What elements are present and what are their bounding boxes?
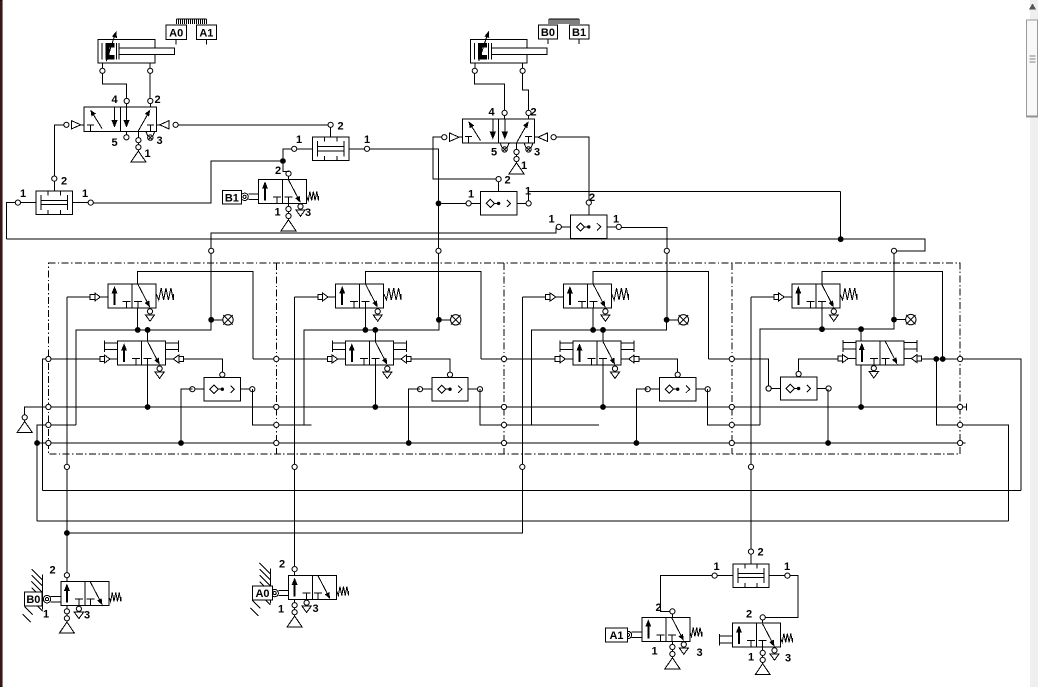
module 3 pilot line in segment [507,358,556,360]
valve A1 roller [624,631,642,638]
cylinder B (double-acting) [470,31,547,73]
module 1 memory valve port1 to bus1 [147,365,149,407]
module 2 junction shuttle bus3 [406,440,412,446]
module 2 shuttle left to bus3 [409,389,420,443]
module 1 memory valve (3/2 double pilot) [118,341,166,365]
border crossing circle b1 x504 [501,404,506,409]
module 2 bus3 segment [279,442,501,444]
module 2 bus1 segment [279,406,501,408]
module 1 junction feed/pilot-valve port1 [135,327,141,333]
wire OR2 out to V2 right pilot [556,137,588,200]
module 1 shuttle left to bus3 [181,389,192,443]
wire S2 node to OR1 left port [441,202,466,204]
module 1 pilot-out to B0 [66,454,68,530]
module 4 junction feed/memory-valve port2 [858,326,864,332]
module 4 pilot valve spring [840,288,857,300]
wire AND1 right port to B1 node [93,161,280,203]
junction bus3 into bus2 wrap [34,440,40,446]
wall B0 [23,569,43,622]
link circle module4 pilot [748,464,753,469]
valve B1 port 2 [286,171,291,176]
module 4 pilot line in segment [735,359,769,386]
signal line y521 [37,520,1008,522]
module 3 bus2 left segment [507,424,599,426]
svg-text:1: 1 [275,207,281,219]
module 4 pilot valve pilot wire [751,296,774,298]
svg-text:B0: B0 [541,27,555,39]
module 4 pilot valve (3/2 pilot+spring) [792,284,840,308]
module 2 pilot line out segment [481,358,501,360]
module 3 pilot valve left pilot [546,293,564,301]
module 1 bus2 left segment [51,424,76,426]
label A0 [166,25,186,44]
svg-text:A0: A0 [169,27,183,39]
border crossing circle b3 x960 [958,440,963,445]
valve V3 port 3 exhaust [770,648,779,660]
svg-text:B1: B1 [572,27,586,39]
valve B1 (3/2 roller limit switch) [259,179,307,203]
valve V3 port 1 air source [755,647,770,675]
module 2 indicator lamp [436,315,461,325]
svg-text:5: 5 [112,137,118,149]
valve A0 spring [337,587,349,596]
valve V1 port 1 air source [131,131,146,162]
module 1 memory right pilot to shuttle top [183,359,222,372]
module 1 junction feed/memory-valve port2 [145,327,151,333]
svg-text:1: 1 [549,214,555,226]
module 3 pilot line out segment [709,358,729,360]
wire AND2 out to V1 right pilot [178,124,327,126]
valve B0 (3/2 roller limit switch, actuated) [61,582,109,606]
valve V2 right pilot 12 [535,133,557,141]
module 2 memory valve right pilot [393,355,411,363]
module 1 pilot valve out2 wire [138,272,253,359]
wire S1 line to OR2 left [211,227,556,319]
module 4 pilot valve port 3 exhaust [829,309,838,321]
module 3 shuttle valve [645,372,710,401]
svg-text:3: 3 [305,207,311,219]
module 1 pilot valve spring [156,288,173,300]
valve V2 port 5 silencer [500,143,509,152]
label A1 [196,25,216,44]
module 2 pilot-out to A0 [294,454,296,566]
module 4 pilot-out to AND3 [750,454,752,549]
valve A0 port 1 air source [287,600,302,628]
bus1 right end stub [963,406,967,408]
shuttle valve OR1 [466,177,531,216]
wire V1 left pilot to AND1 out [54,125,63,177]
valve B1 port 3 exhaust [296,204,305,216]
valve V2 port 1 air source [509,143,524,174]
module 4 memory right pilot to border [922,358,958,360]
svg-text:2: 2 [746,609,752,621]
valve V2 port 2 [526,110,531,115]
module 2 shuttle right to bus2 [480,389,501,425]
module 3 pilot valve (3/2 pilot+spring) [563,284,611,308]
module 3 junction feed/pilot-valve port1 [590,327,596,333]
module 3 pilot valve out2 wire [593,272,708,359]
module 4 memory valve port 3 exhaust [869,366,878,378]
scrollbar track [1030,0,1038,687]
svg-text:A1: A1 [609,630,623,642]
link circle S1 feed [209,248,214,253]
distance ruler A [177,19,207,24]
module 1 pilot line out segment [253,358,273,360]
valve V1 left pilot 14 [64,121,84,129]
valve A0 port 2 [292,567,297,572]
scrollbar up arrow [1029,4,1036,10]
wire S4 feed into module 4 [893,254,895,320]
module 2 junction feed/pilot-valve port1 [363,327,369,333]
module 4 memory valve (3/2 double pilot, mirrored) [856,341,904,365]
svg-text:1: 1 [714,561,720,573]
border crossing circle pilot x960 [958,356,963,361]
module 1 feed line [76,322,211,425]
module 2 feed line [304,322,439,425]
module 4 pilot valve port1 wire [821,308,823,329]
module 1 memory valve right pilot [166,355,184,363]
label B1 (ruler) [569,25,589,44]
svg-text:1: 1 [278,604,284,616]
scrollbar thumb [1026,20,1037,117]
label B0 (ruler) [538,25,557,44]
link circle S2 feed [436,248,441,253]
svg-text:1: 1 [521,160,527,172]
module 2 pilot valve out2 wire [365,272,480,359]
module 3 memory valve port 3 exhaust [610,366,619,378]
border crossing circle pilot x731 [729,356,734,361]
border crossing circle pilot x504 [501,356,506,361]
two-pressure valve AND1 [15,176,93,214]
junction S4 node [838,236,844,242]
signal line y533 (B0 to module 3) [70,454,523,533]
wire AND1 left port to edge [7,203,16,240]
valve A1 spring [690,628,702,637]
border crossing circle b1 x960 [958,404,963,409]
bus3 left stub [37,442,46,444]
svg-text:4: 4 [489,107,496,119]
border crossing circle pilot x48 [46,356,51,361]
module 2 pilot valve pilot wire [295,296,318,298]
svg-text:3: 3 [697,647,703,659]
module 3 pilot valve port1 wire [592,308,594,330]
svg-text:A0: A0 [255,588,269,600]
wire S4 line [7,238,838,240]
label A1 box [606,628,628,642]
svg-text:2: 2 [275,165,281,177]
wire cylB left port to V2 port 4 [475,74,505,111]
svg-text:3: 3 [157,135,163,147]
svg-text:2: 2 [758,547,764,559]
module 2 memory valve port1 to bus1 [374,365,376,407]
module 2 pilot-out down wire [294,297,296,454]
valve A1 port 3 exhaust [679,642,688,654]
valve A0 port 3 exhaust [302,600,311,612]
wire AND3 right to V3 port 2 [766,576,798,618]
wire OR1 right port to S4 line [529,191,841,200]
wire B1 node to AND2 left port [283,149,292,158]
wire S3 feed into module 3 [666,254,668,320]
module 3 pilot valve pilot wire [522,296,545,298]
valve B1 roller [241,193,259,200]
module 3 pilot valve port 3 exhaust [601,309,610,321]
link circle module2 pilot [292,464,297,469]
wire B0 to junction [66,536,68,573]
valve V2 left pilot 14 [442,133,463,141]
border crossing circle b3 x731 [729,440,734,445]
border crossing circle pilot x276 [274,356,279,361]
module 2 memory valve port2 wire [374,330,376,341]
valve A1 port 2 [670,609,675,614]
module 3 feed line [532,322,667,425]
svg-text:1: 1 [468,189,474,201]
module 4 memory valve left pilot [838,355,856,363]
module 3 indicator lamp [664,315,689,325]
module 3 junction memory port1 bus1 [600,404,606,410]
module 2 memory right pilot to shuttle top [411,359,450,372]
pilot line right wrap [963,359,1021,491]
svg-text:3: 3 [534,147,540,159]
border crossing circle b1 x48 [46,404,51,409]
module 4 pilot-out down wire [750,297,752,454]
module 1 pilot line in segment [51,358,100,360]
svg-text:2: 2 [505,175,511,187]
bus1 exhaust [17,415,32,433]
border crossing circle b2 x960 [958,422,963,427]
border crossing circle b3 x276 [274,440,279,445]
module 3 memory right pilot to shuttle top [639,359,678,372]
border crossing circle b2 x731 [729,422,734,427]
valve V2 port 3 silencer [524,143,533,152]
module 1 pilot valve pilot wire [67,296,90,298]
module 1 memory valve flanges [105,341,179,353]
valve V2 port 4 [502,110,507,115]
module 3 junction feed/memory-valve port2 [600,327,606,333]
svg-text:3: 3 [84,610,90,622]
module 1 junction shuttle bus3 [178,440,184,446]
module 3 bus1 segment [507,406,729,408]
svg-text:2: 2 [338,121,344,133]
module 1 memory valve port 3 exhaust [155,366,164,378]
valve V1 port 5 [124,135,129,140]
svg-text:1: 1 [784,561,790,573]
junction S2 node [436,201,442,207]
border crossing circle b2 x276 [274,422,279,427]
svg-text:2: 2 [61,176,67,188]
valve B0 spring [109,593,121,602]
module 4 shuttle valve [766,371,831,400]
wire B1 node to B1 port 2 [283,164,289,172]
pilot line left wrap [42,359,45,491]
module 3 memory valve port2 wire [602,330,604,341]
module 1 bus1 segment [51,406,273,408]
valve V1 port 4 [124,98,129,103]
module 1 pilot valve port 3 exhaust [145,309,154,321]
module 4 pilot valve out2 wire [822,272,943,359]
svg-text:A1: A1 [199,27,213,39]
border crossing circle b1 x276 [274,404,279,409]
module 1 junction memory port1 bus1 [145,404,151,410]
module 4 junction feed/pilot-valve port1 [819,326,825,332]
module 4 bus1 segment [735,406,958,408]
svg-text:2: 2 [279,559,285,571]
border crossing circle b3 x48 [46,440,51,445]
link circle module3 pilot [520,464,525,469]
two-pressure valve AND3 [712,549,790,587]
module 3 memory valve port1 to bus1 [602,365,604,407]
svg-text:1: 1 [145,148,151,160]
module 2 pilot valve spring [384,288,401,300]
two-pressure valve AND2 [292,122,370,160]
valve V3 port 2 [760,615,765,620]
svg-text:1: 1 [364,134,370,146]
valve A1 (3/2 roller limit switch) [642,617,690,641]
valve V1 port 3 silencer [146,131,155,140]
module 3 shuttle right to bus2 [708,389,729,425]
module 2 memory valve (3/2 double pilot) [345,341,393,365]
module 4 bus3 segment [735,442,958,444]
svg-text:1: 1 [613,214,619,226]
module 4 memory valve port2 wire [860,329,862,341]
module 4 shuttle right to bus3 [827,389,829,443]
module 3 memory valve right pilot [621,355,639,363]
valve B0 port 3 exhaust [74,606,83,618]
svg-text:B1: B1 [225,192,239,204]
valve V3 spring [781,634,793,643]
bus1 left end [25,407,46,415]
shuttle valve OR2 [556,200,621,239]
module 4 pilot valve left pilot [774,293,792,301]
module 1 pilot valve port1 wire [137,308,139,330]
module 4 shuttle out to memory left pilot [799,359,839,371]
module 4 memory valve port1 to bus1 [860,365,862,407]
module 2 junction feed/memory-valve port2 [372,327,378,333]
valve V1 port 2 [148,98,153,103]
svg-text:B0: B0 [26,594,40,606]
label A0 box [253,586,273,600]
module 2 junction memory port1 bus1 [372,404,378,410]
wire cylA left port to V1 port 4 [103,74,127,99]
module 1 memory valve left pilot [100,355,118,363]
wire cylA right port to V1 port 2 [149,74,151,99]
valve B1 spring [307,192,319,201]
module 2 memory valve left pilot [328,355,346,363]
svg-text:1: 1 [20,188,26,200]
svg-text:1: 1 [748,652,754,664]
wire S2 feed into module 2 [438,254,440,320]
wire OR1 out to V2 left pilot [433,137,496,179]
valve V1 right pilot 12 [156,121,178,129]
wire S4 line right to module 4 [843,239,925,251]
valve A0 (3/2 roller limit switch, actuated) [289,576,337,600]
module 4 bus2 riser [936,359,957,425]
module 4 junction riser pilot line [933,356,939,362]
border crossing circle b2 x504 [501,422,506,427]
module 3 memory valve (3/2 double pilot) [573,341,621,365]
valve A1 port 1 air source [665,641,680,669]
module 3 memory valve flanges [560,341,634,353]
valve V1 (5/2 double pilot, cylinder A) [84,107,156,131]
module 1 pilot valve left pilot [90,293,108,301]
module 2 pilot valve port 3 exhaust [373,309,382,321]
module 4 junction shuttle bus3 [825,440,831,446]
valve A0 roller [271,589,289,596]
valve B1 port 1 air source [281,203,296,231]
module 1 pilot valve (3/2 pilot+spring) [108,284,156,308]
module 4 memory valve right pilot [904,355,922,363]
wire OR2 right to module 3 [622,227,667,248]
module 4 junction memory port1 bus1 [858,404,864,410]
cascade frame (dash-dot border) [48,263,960,454]
link circle module1 pilot [64,464,69,469]
module 3 pilot-out down wire [521,297,523,454]
valve B0 port 2 [64,573,69,578]
valve B0 port 1 air source [59,606,74,634]
wire AND3 left to A1 port 2 [661,576,712,612]
wire cylB right port to V2 port 2 [523,74,529,111]
scrollbar thumb grip [1030,56,1036,62]
wire S4 vertical [840,191,842,236]
distance ruler B [549,19,579,24]
module 2 memory valve flanges [332,341,406,353]
module 2 memory valve port 3 exhaust [383,366,392,378]
bus1 right end plug [966,403,968,410]
valve B0 roller [43,596,61,603]
svg-text:2: 2 [589,192,595,204]
svg-text:4: 4 [112,94,119,106]
module 4 indicator lamp [891,314,916,324]
module 2 bus2 left segment [279,424,311,426]
module 4 junction out2 pilot line [940,356,946,362]
junction B0 output node [64,530,70,536]
module 4 bus2 left segment [735,424,760,426]
module 1 pilot-out down wire [66,297,68,454]
module 4 feed line [760,322,894,425]
module 2 pilot valve left pilot [318,293,336,301]
border crossing circle b2 x48 [46,422,51,427]
wall A0 [251,563,271,616]
module 3 shuttle left to bus3 [636,389,647,443]
module 3 bus3 segment [507,442,729,444]
module 4 memory valve flanges [843,340,917,352]
bus3 right end stub [963,442,966,444]
link circle S4 feed [891,248,896,253]
svg-text:3: 3 [313,603,319,615]
module 3 memory valve left pilot [555,355,573,363]
svg-text:2: 2 [155,94,161,106]
module 4 shuttle left port circle link [766,386,771,391]
svg-text:2: 2 [531,107,537,119]
svg-text:1: 1 [82,188,88,200]
signal line y490 [42,490,1021,492]
valve V2 (5/2 double pilot, cylinder B) [462,119,534,143]
border crossing circle b3 x504 [501,440,506,445]
bus2 left wrap [37,425,46,521]
module 1 shuttle valve [190,372,255,401]
svg-text:1: 1 [43,609,49,621]
window left border (maroon) [0,0,2,687]
svg-text:3: 3 [785,653,791,665]
module 3 pilot valve spring [612,288,629,300]
svg-text:1: 1 [296,134,302,146]
wire S2 node down to module 2 [438,206,440,248]
module 1 shuttle right to bus2 [252,389,273,425]
module 1 indicator lamp [208,315,233,325]
link circle S3 feed [664,248,669,253]
module 3 junction shuttle bus3 [634,440,640,446]
module 2 pilot valve port1 wire [364,308,366,330]
junction B1 output node [280,158,286,164]
